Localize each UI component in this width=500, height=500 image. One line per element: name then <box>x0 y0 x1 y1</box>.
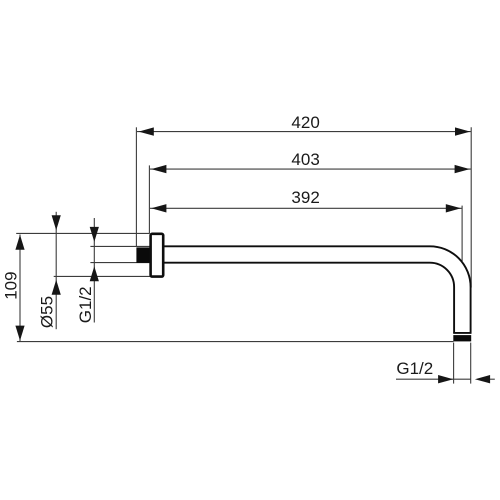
svg-text:G1/2: G1/2 <box>76 286 95 323</box>
svg-text:403: 403 <box>291 150 319 169</box>
dim line D55 <box>55 212 57 329</box>
ext line right of 392 (outlet centerline) <box>461 206 463 261</box>
arrow D55 top <box>52 215 61 230</box>
arrow G1/2 wall top <box>90 227 99 242</box>
svg-text:109: 109 <box>1 271 20 299</box>
wall flange <box>151 234 164 277</box>
svg-text:Ø55: Ø55 <box>38 296 57 328</box>
arrow 109 bottom <box>15 326 24 341</box>
arrow G1/2 wall bottom <box>90 266 99 281</box>
svg-text:420: 420 <box>291 113 319 132</box>
ext line right of 420/403 (pipe outer edge) <box>470 127 472 287</box>
shower arm tube outline <box>164 246 472 333</box>
svg-text:392: 392 <box>291 188 319 207</box>
dim line 420 <box>137 131 471 133</box>
outlet thread G1/2 (black band) <box>453 335 471 341</box>
ext line bottom of D55 (flange bottom) <box>54 275 150 277</box>
arrow 420 left <box>139 127 154 135</box>
ext line G1/2 wall bottom (pipe bottom) <box>90 262 150 264</box>
arrow G1/2 outlet right <box>475 375 490 383</box>
ext line left of 420 (thread end face) <box>135 127 137 246</box>
arrow 403 right <box>455 165 470 173</box>
dim line G1/2 wall side <box>93 218 95 323</box>
dim line 392 <box>150 207 462 209</box>
ext line left of 403/392 (wall face) <box>148 165 150 233</box>
dim line 109 <box>19 235 21 342</box>
tube end cap <box>453 332 471 334</box>
dim tail right of G1/2 outlet <box>489 378 495 380</box>
ext line G1/2 wall top (pipe top) <box>90 245 150 247</box>
ext line top of 109 (flange top) <box>16 232 150 234</box>
svg-text:G1/2: G1/2 <box>396 359 433 378</box>
arrow 403 left <box>151 165 166 173</box>
arrow 109 top <box>15 235 24 250</box>
arrow 392 left <box>151 204 166 212</box>
tube bottom edge and inner bend <box>164 263 455 333</box>
arrow D55 bottom <box>52 280 61 295</box>
ext line outlet right <box>470 343 472 384</box>
arrow 420 right <box>455 127 470 135</box>
tube top edge and outer bend <box>164 246 471 333</box>
dim line G1/2 outlet <box>396 378 471 380</box>
ext line outlet left <box>453 343 455 384</box>
wall thread G1/2 (black square) <box>136 247 149 263</box>
dim line 403 <box>150 168 471 170</box>
arrow G1/2 outlet left <box>438 375 453 383</box>
arrow 392 right <box>446 204 461 212</box>
ext line bottom of 109 (outlet end, long) <box>17 341 454 343</box>
